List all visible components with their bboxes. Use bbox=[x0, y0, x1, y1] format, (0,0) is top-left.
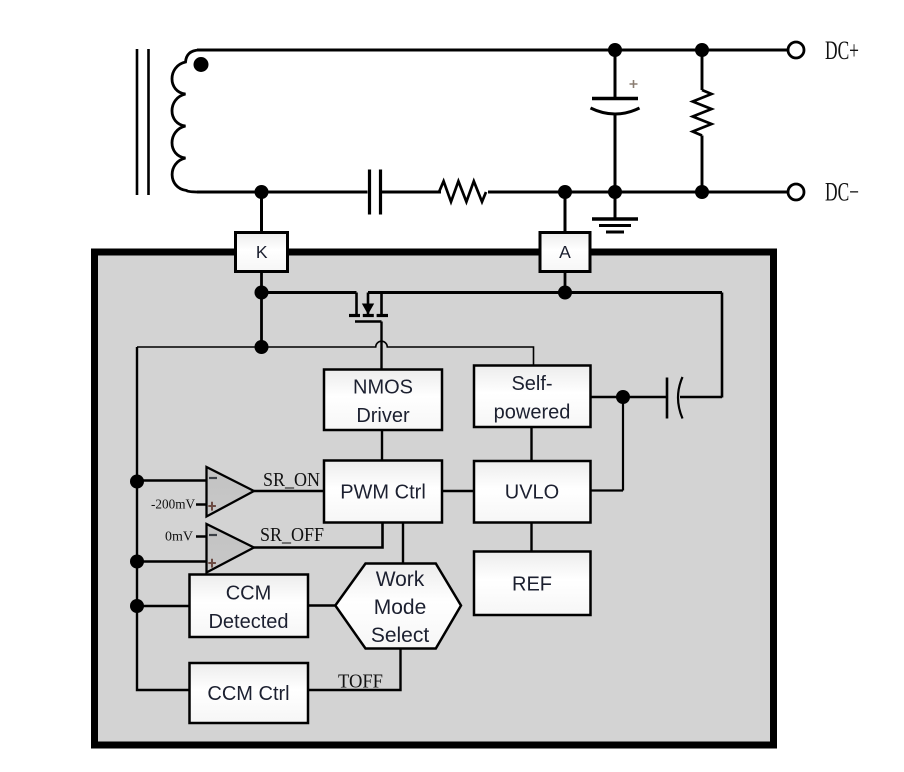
svg-text:0mV: 0mV bbox=[165, 530, 193, 545]
svg-text:DC−: DC− bbox=[825, 178, 859, 207]
svg-text:DC+: DC+ bbox=[825, 36, 859, 65]
svg-text:Work: Work bbox=[376, 568, 425, 591]
svg-text:CCM: CCM bbox=[226, 583, 272, 605]
svg-text:TOFF: TOFF bbox=[338, 672, 383, 693]
svg-text:-200mV: -200mV bbox=[151, 498, 195, 513]
svg-text:Detected: Detected bbox=[208, 611, 288, 633]
svg-text:Select: Select bbox=[371, 624, 430, 647]
svg-text:SR_OFF: SR_OFF bbox=[260, 525, 324, 546]
svg-text:CCM Ctrl: CCM Ctrl bbox=[207, 683, 289, 705]
svg-text:A: A bbox=[559, 242, 571, 262]
svg-text:Driver: Driver bbox=[356, 405, 410, 427]
svg-text:UVLO: UVLO bbox=[505, 482, 559, 504]
svg-text:Self-: Self- bbox=[511, 373, 552, 395]
svg-text:SR_ON: SR_ON bbox=[263, 470, 320, 491]
svg-text:PWM Ctrl: PWM Ctrl bbox=[340, 482, 426, 504]
svg-text:NMOS: NMOS bbox=[353, 377, 413, 399]
svg-text:K: K bbox=[256, 242, 268, 262]
svg-text:powered: powered bbox=[494, 402, 571, 424]
svg-text:REF: REF bbox=[512, 574, 552, 596]
svg-text:Mode: Mode bbox=[374, 596, 427, 619]
